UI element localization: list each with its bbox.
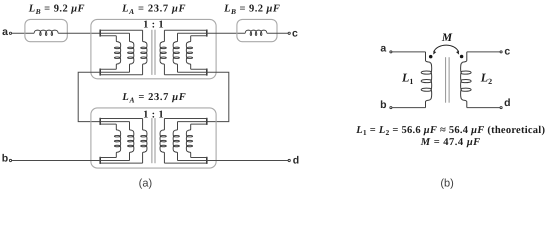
- svg-text:(b): (b): [440, 178, 453, 190]
- transformer T2 secondary terminal bar bottom: [206, 157, 208, 164]
- svg-text:L1: L1: [401, 71, 413, 86]
- wire LB2 to node c: [267, 32, 288, 34]
- transformer T1 primary terminal bar bottom: [99, 69, 101, 76]
- transformer T1 secondary coil 2: [173, 33, 179, 72]
- svg-text:L1 = L2 = 56.6 μF ≈ 56.4 μF (t: L1 = L2 = 56.6 μF ≈ 56.4 μF (theoretical…: [355, 125, 545, 137]
- transformer T1 core: [151, 30, 153, 75]
- transformer T2 primary coil 1: [114, 124, 120, 157]
- arrowhead right: [456, 51, 459, 55]
- svg-text:1 : 1: 1 : 1: [143, 109, 164, 120]
- transformer T2 primary branch 3 top rail: [100, 118, 142, 120]
- transformer T2 primary coil 2: [128, 122, 134, 161]
- winding L2: [461, 52, 472, 108]
- svg-text:d: d: [504, 97, 510, 109]
- transformer T2 primary branch 3 bottom rail: [100, 162, 142, 164]
- transformer T2 secondary branch 2 top rail: [178, 121, 207, 123]
- inductor LB1 coil: [34, 30, 58, 35]
- transformer T1 secondary branch 1 bottom rail: [191, 68, 207, 70]
- svg-text:1 : 1: 1 : 1: [143, 20, 164, 31]
- winding L1: [421, 52, 432, 108]
- svg-text:a: a: [380, 43, 386, 55]
- svg-text:M: M: [441, 32, 453, 44]
- transformer T1 secondary branch 3 bottom rail: [164, 74, 206, 76]
- inductor LB1 box: [25, 19, 67, 41]
- core (fig b): [445, 57, 447, 102]
- transformer T1 primary branch 3 top rail: [100, 29, 142, 31]
- node c (fig b): [500, 51, 502, 53]
- transformer T2 secondary branch 3 top rail: [164, 118, 206, 120]
- interconnect wire right: [207, 72, 229, 121]
- transformer T1 secondary terminal bar bottom: [206, 69, 208, 76]
- node c: [288, 32, 290, 34]
- transformer T1 secondary branch 2 bottom rail: [178, 71, 207, 73]
- transformer T2 secondary coil 1: [186, 124, 192, 157]
- node d: [288, 159, 290, 161]
- transformer T1 secondary coil 1: [186, 36, 192, 69]
- wire b to winding L1: [392, 107, 425, 109]
- svg-text:LB = 9.2 μF: LB = 9.2 μF: [28, 4, 85, 16]
- transformer T2 secondary terminal bar top: [206, 118, 208, 125]
- transformer T1 primary branch 2 bottom rail: [100, 71, 129, 73]
- wire a to winding L1: [392, 51, 425, 53]
- transformer T2 enclosure box: [91, 108, 216, 168]
- transformer T1 secondary terminal bar top: [206, 30, 208, 37]
- node d (fig b): [500, 107, 502, 109]
- wire d to winding L2: [467, 107, 500, 109]
- transformer T2 secondary coil 2: [173, 122, 179, 161]
- svg-text:LA = 23.7 μF: LA = 23.7 μF: [121, 4, 186, 16]
- transformer T1 primary branch 1 top rail: [100, 35, 116, 37]
- mutual coupling arrow arc: [434, 45, 459, 52]
- transformer T2 secondary branch 2 bottom rail: [178, 160, 207, 162]
- transformer T2 primary terminal bar top: [99, 118, 101, 125]
- transformer T1 primary coil 2: [128, 33, 134, 72]
- wire T1 to LB2: [207, 32, 245, 34]
- wire a to LB1: [12, 32, 34, 34]
- transformer T2 secondary coil 3: [160, 119, 166, 164]
- svg-text:M = 47.4 μF: M = 47.4 μF: [420, 137, 481, 148]
- transformer T1 secondary branch 3 top rail: [164, 29, 206, 31]
- transformer T2 primary branch 1 bottom rail: [100, 157, 116, 159]
- transformer T2 primary branch 2 top rail: [100, 121, 129, 123]
- transformer T1 secondary branch 1 top rail: [191, 35, 207, 37]
- wire c to winding L2: [467, 51, 500, 53]
- transformer T1 secondary branch 2 top rail: [178, 32, 207, 34]
- wire b to transformer T2: [12, 160, 100, 162]
- transformer T1 primary branch 3 bottom rail: [100, 74, 142, 76]
- transformer T1 enclosure box: [91, 19, 216, 78]
- arrowhead left: [433, 51, 436, 55]
- transformer T2 core: [151, 118, 153, 163]
- svg-text:L2: L2: [480, 71, 492, 86]
- svg-text:d: d: [293, 155, 299, 167]
- svg-text:LB = 9.2 μF: LB = 9.2 μF: [223, 4, 280, 16]
- svg-text:b: b: [2, 153, 8, 165]
- svg-text:c: c: [292, 28, 298, 40]
- transformer T2 secondary branch 3 bottom rail: [164, 162, 206, 164]
- transformer T1 primary coil 3: [141, 30, 147, 75]
- transformer T1 primary coil 1: [114, 36, 120, 69]
- interconnect wire left: [78, 72, 100, 121]
- polarity dot left: [429, 55, 433, 59]
- transformer T2 primary terminal bar bottom: [99, 157, 101, 164]
- transformer T2 secondary branch 1 bottom rail: [191, 157, 207, 159]
- transformer T1 primary branch 2 top rail: [100, 32, 129, 34]
- svg-text:b: b: [380, 99, 386, 111]
- transformer T1 secondary coil 3: [160, 30, 166, 75]
- svg-text:c: c: [504, 46, 510, 58]
- wire T2 to node d: [207, 160, 288, 162]
- svg-text:a: a: [2, 26, 8, 38]
- transformer T2 secondary branch 1 top rail: [191, 123, 207, 125]
- transformer T2 primary coil 3: [141, 119, 147, 164]
- wire LB1 to transformer T1: [58, 32, 100, 34]
- transformer T1 primary terminal bar top: [99, 30, 101, 37]
- transformer T1 primary branch 1 bottom rail: [100, 68, 116, 70]
- svg-text:(a): (a): [139, 178, 152, 190]
- inductor LB2 box: [237, 19, 277, 41]
- inductor LB2 coil: [245, 30, 267, 35]
- polarity dot right: [460, 55, 464, 59]
- svg-text:LA = 23.7 μF: LA = 23.7 μF: [121, 92, 186, 104]
- transformer T2 primary branch 2 bottom rail: [100, 160, 129, 162]
- transformer T2 primary branch 1 top rail: [100, 123, 116, 125]
